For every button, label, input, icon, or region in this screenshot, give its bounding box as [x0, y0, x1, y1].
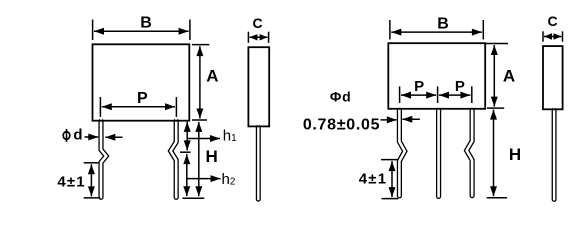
label Phi-d with arrows (left figure) [63, 126, 122, 143]
svg-text:H: H [205, 147, 217, 166]
left figure: capacitor body front view [93, 44, 190, 120]
label 0.78±0.05 with arrows (right figure) [303, 116, 420, 133]
svg-text:H: H [509, 145, 521, 164]
svg-text:P: P [137, 90, 148, 107]
wire: lead of left side view [256, 126, 261, 200]
wire: lead 2 straight (right figure) [436, 109, 441, 197]
svg-text:Φd: Φd [330, 89, 352, 105]
dimension P left span (right figure) [400, 78, 438, 103]
svg-text:P: P [455, 78, 465, 95]
svg-text:A: A [503, 67, 515, 86]
wire: right lead with kink (left figure) [171, 120, 177, 198]
svg-text:C: C [547, 13, 557, 29]
dimension P (left figure) [100, 90, 176, 117]
dimension P right span (right figure) [439, 78, 472, 103]
wire: left lead with kink (left figure) [101, 120, 106, 198]
svg-text:A: A [206, 66, 218, 85]
dimension B (left figure) [93, 15, 190, 40]
dimension C (right side view) [543, 13, 563, 42]
wire: lead of right side view [552, 109, 557, 200]
svg-text:0.78±0.05: 0.78±0.05 [303, 116, 380, 133]
dimension h1 (left figure) [180, 122, 237, 152]
dimension A (right figure) [486, 44, 516, 109]
wire: lead 3 with kink (right figure) [467, 109, 473, 196]
wire: lead 1 with kink (right figure) [399, 109, 404, 196]
svg-text:C: C [252, 15, 262, 31]
dimension 4±1 (right figure) [359, 160, 399, 199]
right figure: capacitor body front view (3 leads) [388, 43, 485, 109]
svg-text:d: d [73, 126, 82, 143]
right side view: body [543, 46, 563, 109]
dimension A (left figure) [192, 45, 219, 120]
svg-text:B: B [437, 15, 449, 32]
svg-text:P: P [414, 78, 424, 95]
left side view: body [248, 47, 269, 126]
dimension 4±1 (left figure) [57, 163, 100, 198]
dimension h2 (left figure) [182, 154, 235, 198]
dimension B (right figure) [390, 15, 483, 39]
svg-text:4±1: 4±1 [57, 173, 86, 190]
dimension H (left figure) [199, 122, 218, 196]
svg-text:4±1: 4±1 [359, 171, 388, 188]
dimension H (right figure) [487, 110, 521, 198]
dimension C (left side view) [248, 15, 268, 43]
svg-text:B: B [140, 15, 152, 32]
